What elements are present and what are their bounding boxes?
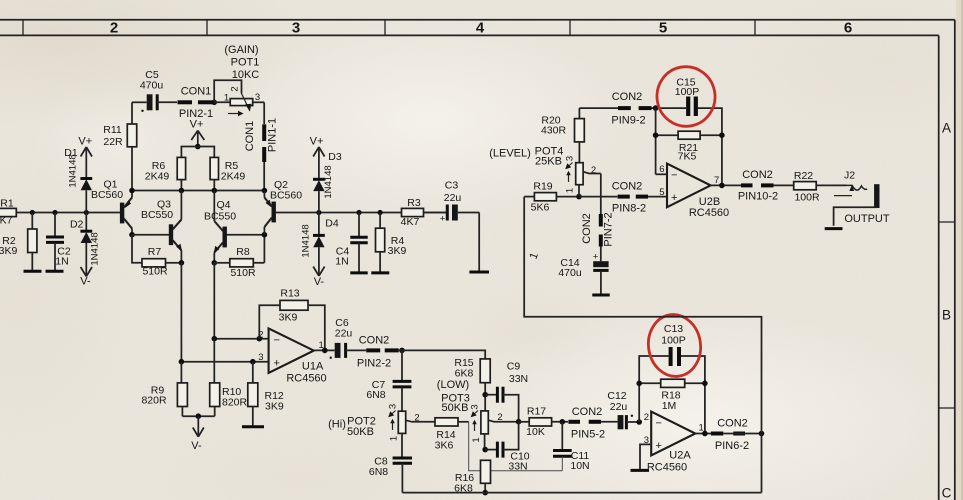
capacitor C12 22u bbox=[607, 390, 639, 430]
svg-text:U2A: U2A bbox=[669, 450, 691, 462]
resistor R11 bbox=[103, 102, 136, 190]
diode D2 1N4148 bbox=[70, 213, 101, 277]
svg-text:R22: R22 bbox=[794, 170, 813, 182]
resistor R17 10K bbox=[519, 405, 568, 438]
border right inner line bbox=[938, 35, 940, 500]
diode D3 1N4148 bbox=[313, 151, 342, 213]
V+ arrow right bbox=[310, 136, 325, 180]
capacitor C8 6N8 bbox=[369, 456, 412, 493]
svg-text:50KB: 50KB bbox=[347, 426, 374, 438]
svg-text:BC550: BC550 bbox=[204, 211, 236, 223]
svg-text:3: 3 bbox=[292, 20, 300, 37]
svg-text:3K6: 3K6 bbox=[435, 440, 454, 452]
capacitor C13 100P bbox=[639, 323, 705, 434]
node U2A output/feedback bbox=[702, 431, 708, 437]
svg-text:RC4560: RC4560 bbox=[647, 462, 687, 474]
op-amp U2A RC4560 bbox=[644, 412, 704, 474]
svg-text:C: C bbox=[942, 486, 952, 500]
svg-text:3: 3 bbox=[255, 92, 260, 103]
wire Q2 base line right bbox=[319, 212, 447, 214]
svg-text:V+: V+ bbox=[190, 119, 204, 131]
svg-text:CON1: CON1 bbox=[244, 121, 256, 152]
svg-text:3K9: 3K9 bbox=[279, 312, 298, 324]
wire Q4 base to Q2 collector bbox=[227, 234, 265, 236]
svg-text:510R: 510R bbox=[142, 266, 168, 278]
capacitor C5 470u bbox=[132, 69, 177, 112]
ground bar under R2 bbox=[24, 270, 42, 273]
svg-text:OUTPUT: OUTPUT bbox=[844, 213, 890, 225]
node C11 junction bbox=[560, 419, 566, 425]
node after PIN2-2 bbox=[399, 348, 405, 354]
svg-text:BC560: BC560 bbox=[270, 190, 302, 202]
resistor R19 5K6 bbox=[524, 181, 579, 214]
svg-text:25KB: 25KB bbox=[535, 156, 562, 168]
svg-text:6K8: 6K8 bbox=[455, 368, 474, 380]
band tick 2 bbox=[206, 20, 208, 36]
svg-text:22R: 22R bbox=[103, 136, 123, 148]
node Q3 emitter / R7 bbox=[179, 260, 185, 266]
transistor Q2 BC560 bbox=[264, 179, 319, 235]
svg-text:1N4148: 1N4148 bbox=[301, 224, 312, 257]
node Q2 collector / Q4 base bbox=[262, 232, 268, 238]
band tick 4 bbox=[569, 20, 571, 36]
wire U1A non-inverting input line bbox=[181, 361, 268, 363]
node POT4 bottom bbox=[576, 194, 582, 200]
node POT3 bottom / C10 / R16 bbox=[482, 447, 488, 453]
svg-text:R1: R1 bbox=[0, 198, 14, 210]
svg-text:CON2: CON2 bbox=[359, 334, 390, 346]
svg-text:+: + bbox=[274, 357, 280, 369]
svg-text:CON2: CON2 bbox=[581, 213, 593, 244]
resistor R16 6K8 bbox=[454, 460, 490, 494]
svg-text:+: + bbox=[440, 214, 446, 225]
node output/feedback bbox=[322, 348, 328, 354]
capacitor C15 100P bbox=[675, 77, 722, 186]
svg-text:100P: 100P bbox=[661, 334, 686, 346]
transistor Q3 BC550 bbox=[141, 191, 182, 263]
capacitor C14 470u bbox=[558, 252, 608, 295]
svg-text:+: + bbox=[671, 192, 677, 204]
svg-text:3K9: 3K9 bbox=[388, 245, 407, 257]
svg-text:U1A: U1A bbox=[302, 361, 324, 373]
svg-text:10N: 10N bbox=[570, 460, 589, 472]
svg-text:10KC: 10KC bbox=[232, 69, 260, 81]
svg-text:1: 1 bbox=[471, 437, 482, 442]
capacitor C3 22u bbox=[440, 180, 479, 225]
svg-text:+: + bbox=[593, 252, 599, 263]
wire bottom rail bbox=[402, 492, 761, 494]
border right outer line bbox=[954, 20, 956, 500]
svg-text:3K9: 3K9 bbox=[0, 245, 17, 257]
resistor R15 6K8 bbox=[454, 357, 490, 411]
svg-text:D2: D2 bbox=[70, 219, 84, 231]
svg-text:100R: 100R bbox=[794, 191, 820, 203]
node R18 right bbox=[702, 381, 708, 387]
band tick 5 bbox=[754, 20, 756, 36]
resistor R2 bbox=[0, 213, 37, 272]
svg-text:2: 2 bbox=[258, 329, 263, 340]
right tick 2 bbox=[939, 407, 955, 409]
wire Q1 collector down to R7 bbox=[132, 235, 142, 263]
potentiometer POT3 50KB (LOW) bbox=[437, 379, 519, 450]
svg-text:1N4148: 1N4148 bbox=[68, 154, 79, 187]
svg-text:BC560: BC560 bbox=[91, 189, 123, 201]
svg-text:4: 4 bbox=[476, 20, 485, 37]
V+ arrow center bbox=[190, 119, 205, 147]
svg-text:RC4560: RC4560 bbox=[286, 373, 326, 385]
wire C7 column bbox=[401, 350, 403, 381]
svg-text:2K49: 2K49 bbox=[221, 171, 246, 183]
ground bar under C4 bbox=[350, 271, 367, 274]
svg-text:1M: 1M bbox=[662, 400, 677, 412]
wire Q1 collector to Q3 base bbox=[132, 234, 169, 236]
capacitor C6 22u bbox=[330, 317, 367, 359]
node Q1 collector / Q3 base bbox=[129, 232, 135, 238]
svg-text:PIN1-1: PIN1-1 bbox=[267, 118, 279, 152]
V- arrow right bbox=[313, 267, 324, 289]
svg-text:V+: V+ bbox=[310, 136, 324, 148]
svg-text:BC550: BC550 bbox=[141, 209, 173, 221]
resistor R13 3K9 feedback bbox=[259, 288, 325, 351]
svg-text:1N4148: 1N4148 bbox=[323, 165, 334, 198]
potentiometer POT4 25KB (LEVEL) bbox=[489, 146, 601, 197]
svg-text:10K: 10K bbox=[526, 426, 545, 438]
connector CON2 PIN6-2 dashes bbox=[711, 418, 762, 452]
node R2 junction bbox=[30, 210, 35, 215]
resistor R14 3K6 bbox=[435, 418, 469, 452]
svg-text:R11: R11 bbox=[103, 124, 122, 136]
svg-text:CON2: CON2 bbox=[612, 91, 643, 103]
svg-text:C13: C13 bbox=[664, 323, 683, 335]
svg-text:7K5: 7K5 bbox=[678, 150, 697, 162]
svg-text:3: 3 bbox=[470, 404, 481, 409]
node feedback junction bbox=[257, 336, 263, 342]
svg-text:D3: D3 bbox=[328, 151, 342, 163]
border band bottom line bbox=[0, 34, 939, 36]
resistor R4 3K9 bbox=[376, 213, 407, 273]
wire loop output up and to R19 bbox=[524, 197, 761, 493]
svg-text:(GAIN): (GAIN) bbox=[224, 44, 258, 56]
ground bar under R4 bbox=[371, 271, 389, 274]
svg-text:1: 1 bbox=[389, 436, 400, 441]
svg-text:POT1: POT1 bbox=[231, 57, 260, 69]
node R4 bbox=[378, 210, 383, 215]
wire R9/R10 common to V- bbox=[182, 415, 214, 417]
op-amp U2B RC4560 bbox=[656, 164, 730, 219]
svg-text:Q4: Q4 bbox=[216, 199, 230, 211]
svg-text:PIN10-2: PIN10-2 bbox=[738, 190, 778, 202]
wire Q4 emitter column down bbox=[213, 263, 215, 339]
node R16 bottom rail bbox=[482, 490, 488, 496]
node rail Q2 bbox=[262, 188, 268, 194]
wire thin R14 to C11 bottom bbox=[469, 422, 563, 471]
wire U2B output bbox=[711, 184, 741, 186]
jack J2 bbox=[825, 170, 890, 229]
resistor R3 4K7 bbox=[401, 197, 448, 228]
node C4 bbox=[356, 210, 361, 215]
potentiometer POT2 50KB (Hi) bbox=[328, 404, 435, 458]
svg-text:R7: R7 bbox=[148, 246, 162, 258]
capacitor C9 33N bbox=[485, 361, 528, 422]
resistor R6 2K49 bbox=[145, 157, 186, 190]
svg-text:4K7: 4K7 bbox=[401, 216, 420, 228]
node U2A pin2 bbox=[636, 419, 642, 425]
node R18 left bbox=[636, 381, 642, 387]
connector CON2 PIN9-2 dashes bbox=[611, 91, 686, 127]
svg-text:3: 3 bbox=[388, 404, 399, 409]
wire Q3 emitter column down bbox=[180, 263, 182, 362]
svg-text:PIN5-2: PIN5-2 bbox=[571, 428, 605, 440]
svg-text:2: 2 bbox=[230, 86, 241, 91]
node PIN6-2 right / loop to R19 bbox=[759, 431, 765, 437]
op-amp U1A RC4560 bbox=[258, 328, 326, 384]
svg-text:A: A bbox=[942, 121, 951, 136]
wire V+ rail bbox=[181, 147, 214, 158]
svg-text:6N8: 6N8 bbox=[369, 466, 388, 478]
node D3/D4 bbox=[316, 210, 321, 215]
svg-text:820R: 820R bbox=[141, 395, 167, 407]
svg-text:PIN8-2: PIN8-2 bbox=[612, 203, 646, 215]
svg-text:50KB: 50KB bbox=[442, 402, 469, 414]
connector CON2 PIN8-2 dashes bbox=[612, 180, 667, 214]
svg-text:33N: 33N bbox=[509, 373, 528, 385]
wire R20 top to CON2 PIN9-2 bbox=[579, 107, 618, 109]
svg-text:2: 2 bbox=[497, 412, 502, 423]
svg-text:6N8: 6N8 bbox=[366, 389, 385, 401]
node C2 junction bbox=[52, 210, 57, 215]
node R12 junction bbox=[250, 359, 256, 365]
connector CON2 PIN7-2 dashes bbox=[581, 212, 615, 261]
svg-text:R13: R13 bbox=[280, 288, 299, 300]
resistor R20 430R bbox=[541, 108, 584, 163]
node R21 right bbox=[719, 132, 725, 138]
svg-text:RC4560: RC4560 bbox=[689, 207, 729, 219]
wire POT4 wiper down bbox=[600, 174, 602, 215]
svg-text:1: 1 bbox=[224, 93, 229, 104]
svg-text:3: 3 bbox=[258, 352, 263, 363]
svg-text:CON2: CON2 bbox=[572, 406, 603, 418]
transistor Q1 BC560 bbox=[91, 179, 132, 235]
svg-text:R8: R8 bbox=[236, 246, 250, 258]
svg-text:C3: C3 bbox=[445, 180, 459, 192]
diode D1 1N4148 bbox=[64, 147, 92, 213]
capacitor C10 33N bbox=[485, 422, 530, 473]
svg-text:−: − bbox=[656, 418, 662, 430]
svg-text:6: 6 bbox=[844, 20, 852, 37]
connector CON2 PIN5-2 dashes bbox=[568, 406, 617, 440]
resistor R1 bbox=[0, 198, 16, 227]
svg-text:5: 5 bbox=[659, 187, 664, 198]
svg-text:CON2: CON2 bbox=[717, 418, 748, 430]
ground bar U2A pin3 bbox=[631, 469, 650, 472]
svg-text:K7: K7 bbox=[0, 215, 13, 227]
transistor Q4 BC550 bbox=[204, 191, 236, 263]
resistor R10 820R bbox=[210, 339, 248, 417]
svg-text:5: 5 bbox=[659, 20, 667, 37]
node rail Q1/R11 bbox=[129, 188, 135, 194]
wire to R15 column bbox=[399, 350, 486, 359]
wire C3 to ground bbox=[478, 213, 480, 272]
svg-text:2: 2 bbox=[414, 412, 419, 423]
node inverting line from Q4 column bbox=[212, 336, 218, 342]
right tick 1 bbox=[939, 221, 955, 223]
svg-text:D4: D4 bbox=[325, 218, 339, 230]
svg-text:1N: 1N bbox=[335, 256, 348, 268]
diode D4 1N4148 bbox=[301, 213, 339, 276]
svg-text:+: + bbox=[656, 440, 662, 452]
ground bar under C3 bbox=[469, 271, 489, 274]
node POT1 pin1 junction bbox=[211, 100, 217, 106]
svg-text:470u: 470u bbox=[140, 80, 164, 92]
svg-text:CON2: CON2 bbox=[742, 169, 773, 181]
resistor R12 3K9 bbox=[248, 362, 284, 427]
svg-text:820R: 820R bbox=[222, 396, 248, 408]
node rail R5/Q4 bbox=[212, 188, 218, 194]
svg-text:3: 3 bbox=[565, 156, 576, 161]
red circle C13 bbox=[644, 311, 704, 380]
svg-text:(Hi): (Hi) bbox=[328, 419, 346, 431]
resistor R7 510R bbox=[142, 246, 181, 278]
capacitor C4 1N bbox=[335, 213, 367, 273]
svg-text:1N4148: 1N4148 bbox=[90, 232, 101, 265]
wire R19 to U2B pin5 bbox=[579, 196, 617, 198]
resistor R18 1M bbox=[639, 379, 705, 412]
node POT3 wiper / R17 bbox=[516, 419, 522, 425]
svg-text:2: 2 bbox=[644, 412, 649, 423]
wire emitter top rail bbox=[132, 190, 264, 192]
svg-text:−: − bbox=[671, 170, 677, 182]
svg-text:510R: 510R bbox=[230, 267, 256, 279]
svg-text:(LEVEL): (LEVEL) bbox=[489, 148, 531, 160]
V- arrow left bbox=[80, 267, 92, 288]
svg-text:R19: R19 bbox=[533, 181, 552, 193]
svg-text:V-: V- bbox=[80, 276, 91, 288]
border top outer line bbox=[0, 19, 955, 21]
capacitor C11 10N bbox=[553, 422, 590, 472]
svg-text:6: 6 bbox=[659, 164, 664, 175]
resistor R9 820R bbox=[141, 362, 187, 417]
svg-text:470u: 470u bbox=[558, 267, 582, 279]
ground bar under R12 bbox=[242, 425, 264, 428]
red circle C15 bbox=[653, 63, 720, 131]
svg-text:R3: R3 bbox=[407, 197, 421, 209]
svg-text:CON2: CON2 bbox=[612, 180, 643, 192]
wire main input bbox=[16, 212, 120, 214]
node U2B output bbox=[719, 183, 725, 189]
wire U2A output bbox=[695, 433, 711, 435]
wire U1A inverting input line bbox=[214, 338, 268, 340]
node rail R6/Q3 bbox=[179, 188, 185, 194]
capacitor C7 6N8 bbox=[366, 379, 411, 411]
svg-text:22u: 22u bbox=[444, 192, 462, 204]
svg-text:2: 2 bbox=[110, 20, 118, 37]
svg-text:2K49: 2K49 bbox=[145, 171, 170, 183]
resistor R22 100R bbox=[794, 170, 846, 203]
node C15 left bbox=[653, 105, 659, 111]
svg-text:PIN7-2: PIN7-2 bbox=[603, 212, 615, 246]
node D1/D2 junction bbox=[84, 210, 89, 215]
wire U2A pin3 to ground bbox=[640, 444, 651, 470]
svg-text:−: − bbox=[274, 334, 280, 346]
node Q4 emitter / R8 bbox=[212, 260, 218, 266]
svg-text:5K6: 5K6 bbox=[531, 202, 550, 214]
svg-text:3K9: 3K9 bbox=[265, 400, 284, 412]
wire U1A output bbox=[314, 349, 335, 351]
node V+ rail junction bbox=[195, 144, 201, 150]
ground bar under C14 bbox=[592, 294, 609, 297]
svg-text:22u: 22u bbox=[610, 401, 628, 413]
node R21 left bbox=[653, 132, 659, 138]
svg-text:PIN2-2: PIN2-2 bbox=[357, 358, 391, 370]
V+ arrow left bbox=[78, 136, 92, 179]
svg-text:2: 2 bbox=[591, 165, 596, 176]
svg-text:430R: 430R bbox=[541, 125, 567, 137]
connector CON2 PIN10-2 dashes bbox=[738, 169, 794, 202]
svg-text:V-: V- bbox=[191, 440, 202, 452]
svg-text:1: 1 bbox=[565, 188, 576, 193]
resistor R21 7K5 bbox=[656, 108, 722, 174]
svg-text:CON1: CON1 bbox=[181, 86, 212, 98]
svg-text:1N: 1N bbox=[55, 256, 68, 268]
band tick 3 bbox=[384, 20, 386, 36]
svg-text:V-: V- bbox=[314, 276, 325, 288]
svg-text:PIN9-2: PIN9-2 bbox=[611, 115, 645, 127]
svg-text:J2: J2 bbox=[844, 170, 855, 182]
svg-text:(LOW): (LOW) bbox=[437, 379, 469, 391]
potentiometer POT1 10KC (GAIN) bbox=[214, 44, 264, 124]
node R15 bottom / C9 bbox=[482, 392, 488, 398]
connector CON2 PIN2-2 dashes bbox=[357, 334, 399, 369]
svg-text:100P: 100P bbox=[675, 86, 700, 98]
svg-text:33N: 33N bbox=[508, 460, 527, 472]
connector CON1 PIN2-1 dashes bbox=[178, 86, 214, 121]
node non-inverting from Q3 column bbox=[179, 359, 185, 365]
connector CON1 PIN1-1 dashes bbox=[244, 118, 279, 191]
resistor R8 510R bbox=[214, 235, 264, 279]
resistor R5 2K49 bbox=[210, 157, 245, 190]
capacitor C2 bbox=[46, 213, 71, 272]
svg-text:V+: V+ bbox=[78, 136, 92, 148]
svg-text:R17: R17 bbox=[527, 405, 546, 417]
ground bar under C2 bbox=[46, 270, 64, 273]
node V- junction bbox=[196, 413, 202, 419]
svg-text:B: B bbox=[942, 308, 951, 323]
V- arrow center bbox=[191, 416, 204, 452]
svg-text:22u: 22u bbox=[335, 328, 353, 340]
band tick 1 bbox=[22, 20, 24, 36]
svg-text:C9: C9 bbox=[507, 361, 521, 373]
svg-text:PIN6-2: PIN6-2 bbox=[715, 440, 749, 452]
svg-text:7: 7 bbox=[714, 175, 719, 186]
